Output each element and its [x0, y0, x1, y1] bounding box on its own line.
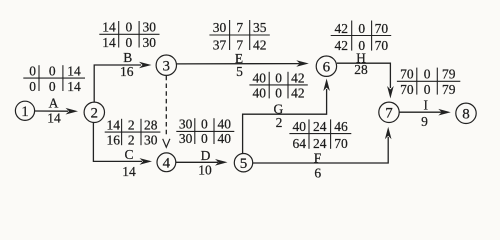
svg-text:14: 14 [102, 20, 116, 35]
wire F: node5 right then up into node7 [253, 137, 388, 163]
activity labels [47, 50, 428, 181]
svg-text:5: 5 [236, 64, 243, 79]
wire B: node2 up then right to node3 [94, 65, 141, 102]
svg-text:30: 30 [179, 117, 193, 132]
svg-text:28: 28 [354, 62, 368, 77]
svg-text:16: 16 [106, 133, 120, 148]
svg-text:6: 6 [323, 60, 331, 76]
arrowhead H down [387, 86, 394, 99]
svg-text:2: 2 [128, 118, 135, 133]
table A lines [23, 77, 85, 79]
svg-text:2: 2 [276, 115, 283, 130]
arrowhead G up [323, 79, 330, 92]
svg-text:24: 24 [313, 119, 327, 134]
table G lines [249, 84, 307, 86]
svg-text:7: 7 [236, 20, 243, 35]
arrowhead A [66, 108, 79, 115]
table values [29, 20, 456, 152]
svg-text:0: 0 [49, 64, 56, 79]
dummy dashed arrow node3 to node4 [165, 76, 167, 137]
arrowhead D [215, 159, 228, 166]
table H lines [331, 35, 392, 37]
svg-text:30: 30 [179, 131, 193, 146]
svg-text:35: 35 [253, 20, 267, 35]
svg-text:79: 79 [442, 82, 456, 97]
svg-text:42: 42 [291, 70, 305, 85]
table E lines [209, 34, 269, 36]
svg-text:40: 40 [217, 117, 231, 132]
svg-text:0: 0 [49, 79, 56, 94]
dummy arrowhead V (open) [163, 139, 170, 147]
svg-text:C: C [124, 147, 133, 162]
svg-text:14: 14 [67, 79, 81, 94]
svg-text:70: 70 [334, 136, 348, 151]
wire I: node7 to node8 [399, 111, 442, 113]
svg-text:24: 24 [313, 136, 327, 151]
wire G: node5 up, right, up into node6 [243, 89, 327, 153]
svg-text:46: 46 [334, 119, 348, 134]
svg-text:0: 0 [275, 70, 282, 85]
arrowhead B [139, 62, 152, 69]
svg-text:9: 9 [421, 114, 428, 129]
svg-text:7: 7 [385, 106, 393, 122]
svg-text:16: 16 [120, 64, 134, 79]
svg-text:70: 70 [400, 66, 414, 81]
wire C: node2 down then right to node4 [93, 123, 142, 162]
svg-text:6: 6 [314, 166, 321, 181]
svg-text:0: 0 [201, 117, 208, 132]
svg-text:14: 14 [67, 64, 81, 79]
svg-text:8: 8 [462, 107, 470, 123]
svg-text:40: 40 [217, 131, 231, 146]
svg-text:0: 0 [424, 66, 431, 81]
svg-text:28: 28 [144, 118, 158, 133]
svg-text:0: 0 [201, 131, 208, 146]
svg-text:42: 42 [253, 37, 267, 52]
svg-text:64: 64 [292, 136, 306, 151]
wire E: node3 to node6 [177, 63, 300, 65]
svg-text:14: 14 [47, 110, 61, 125]
node 5 [234, 154, 252, 172]
svg-text:40: 40 [253, 70, 267, 85]
wire A: node1 to node2 [35, 110, 68, 112]
svg-text:0: 0 [424, 82, 431, 97]
svg-text:70: 70 [375, 38, 389, 53]
svg-text:0: 0 [29, 64, 36, 79]
arrowhead E [296, 60, 309, 67]
node numerals [21, 59, 470, 172]
node 2 [84, 102, 104, 122]
node 8 [456, 103, 476, 123]
svg-text:70: 70 [375, 21, 389, 36]
svg-text:14: 14 [102, 35, 116, 50]
table C lines [105, 131, 161, 133]
svg-text:14: 14 [122, 164, 136, 179]
table I lines [397, 80, 460, 82]
wire D: node4 to node5 [176, 161, 218, 163]
table D lines [176, 130, 234, 132]
svg-text:F: F [314, 150, 322, 165]
svg-text:4: 4 [163, 156, 171, 172]
svg-text:40: 40 [253, 86, 267, 101]
table B lines [99, 33, 159, 35]
svg-text:30: 30 [144, 133, 158, 148]
arrowhead F up [385, 127, 392, 140]
svg-text:0: 0 [126, 35, 133, 50]
node 6 [316, 56, 336, 76]
svg-text:37: 37 [213, 37, 227, 52]
wire H: node6 right then down into node7 [337, 63, 391, 88]
svg-text:0: 0 [126, 20, 133, 35]
node 1 [15, 101, 34, 120]
svg-text:I: I [423, 97, 428, 112]
svg-text:30: 30 [143, 20, 157, 35]
svg-text:B: B [123, 50, 132, 65]
svg-text:5: 5 [240, 156, 248, 172]
svg-text:70: 70 [400, 82, 414, 97]
svg-text:0: 0 [358, 38, 365, 53]
node 3 [156, 55, 176, 75]
svg-text:2: 2 [128, 133, 135, 148]
svg-text:42: 42 [334, 38, 348, 53]
svg-text:0: 0 [275, 86, 282, 101]
svg-text:D: D [201, 148, 211, 163]
svg-text:7: 7 [236, 37, 243, 52]
node 4 [157, 153, 176, 172]
svg-text:42: 42 [291, 86, 305, 101]
svg-text:10: 10 [198, 162, 212, 177]
time-parameter tables: lines [23, 20, 460, 149]
table F lines [289, 133, 351, 135]
svg-text:0: 0 [29, 79, 36, 94]
svg-text:A: A [49, 96, 59, 111]
svg-text:3: 3 [163, 59, 171, 75]
node 7 [379, 102, 399, 122]
svg-text:30: 30 [143, 35, 157, 50]
svg-text:1: 1 [21, 104, 29, 120]
arrowhead I [438, 109, 451, 116]
svg-text:79: 79 [442, 66, 456, 81]
svg-text:40: 40 [292, 119, 306, 134]
svg-text:14: 14 [106, 118, 120, 133]
svg-text:0: 0 [358, 21, 365, 36]
svg-text:42: 42 [334, 21, 348, 36]
svg-text:2: 2 [91, 106, 99, 122]
svg-text:30: 30 [213, 20, 227, 35]
arrowhead C [140, 158, 153, 165]
